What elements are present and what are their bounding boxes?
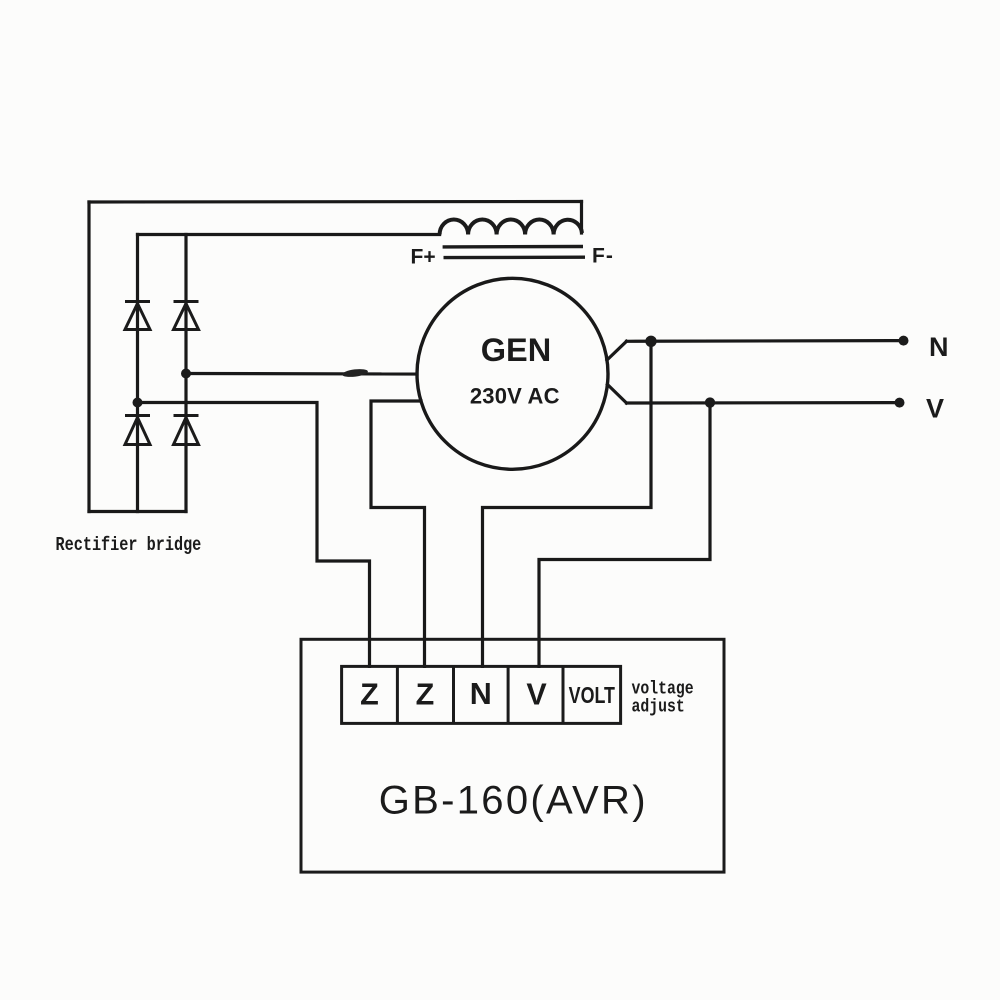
wire V output line bbox=[627, 401, 900, 405]
wire field loop: top horizontal bbox=[89, 200, 582, 204]
svg-text:N: N bbox=[929, 332, 949, 362]
svg-text:F+: F+ bbox=[411, 246, 436, 269]
svg-text:GEN: GEN bbox=[481, 332, 551, 368]
junction dot on right diode column bbox=[181, 369, 191, 379]
diode D3 lower-left bbox=[125, 416, 150, 445]
svg-text:V: V bbox=[526, 678, 547, 712]
inductor L1 field winding humps bbox=[440, 220, 582, 235]
diode D2 upper-right bbox=[174, 302, 199, 330]
junction dot on left diode column bbox=[133, 398, 143, 408]
terminal divider 4 bbox=[562, 666, 565, 723]
wire GEN right lower stub to V line bbox=[608, 385, 627, 404]
terminal dot V end bbox=[895, 398, 905, 408]
terminal strip outline bbox=[342, 666, 621, 723]
generator GEN circle bbox=[417, 278, 608, 469]
svg-text:V: V bbox=[926, 394, 944, 424]
junction dot on V line bbox=[705, 397, 715, 407]
wire B: GEN lower-left to terminal Z2 bbox=[371, 401, 425, 666]
diode D4 lower-right bbox=[174, 416, 199, 445]
wire bridge bottom horizontal bbox=[89, 510, 186, 513]
wire field loop: right vertical down to coil bbox=[580, 202, 583, 234]
wire right diode column bbox=[184, 235, 187, 512]
inductor core line 2 bbox=[444, 256, 586, 260]
svg-text:N: N bbox=[470, 677, 492, 711]
wire inner horizontal from diode tops to coil F+ bbox=[138, 233, 440, 236]
terminal dot N end bbox=[899, 336, 909, 346]
svg-text:Z: Z bbox=[360, 678, 379, 712]
ink blob on GEN wire bbox=[342, 368, 369, 378]
svg-text:230V AC: 230V AC bbox=[470, 384, 560, 409]
terminal divider 3 bbox=[507, 666, 510, 723]
inductor core line 1 bbox=[443, 245, 583, 249]
svg-text:VOLT: VOLT bbox=[569, 683, 615, 709]
wire GEN right upper stub to N line bbox=[607, 341, 627, 360]
svg-text:Rectifier bridge: Rectifier bridge bbox=[56, 536, 202, 557]
junction dot on N line bbox=[645, 336, 656, 347]
svg-text:F-: F- bbox=[592, 245, 614, 268]
terminal divider 2 bbox=[452, 666, 455, 723]
wire from bridge junction to GEN left bbox=[186, 372, 417, 376]
svg-text:Z: Z bbox=[416, 678, 435, 712]
wire E: V junction down and left to terminal V bbox=[539, 403, 710, 667]
wire left diode column bbox=[136, 235, 139, 512]
terminal divider 1 bbox=[396, 666, 399, 723]
AVR box GB-160 bbox=[301, 639, 724, 872]
wire N output line bbox=[627, 339, 904, 343]
diode D1 upper-left bbox=[125, 302, 150, 330]
svg-text:adjust: adjust bbox=[632, 697, 685, 718]
wire A: bridge lower junction to terminal Z1 bbox=[138, 403, 370, 667]
wire D: N junction down and left to terminal N bbox=[483, 341, 652, 666]
wire field loop: left vertical bbox=[87, 202, 90, 512]
svg-text:GB-160(AVR): GB-160(AVR) bbox=[379, 779, 648, 823]
